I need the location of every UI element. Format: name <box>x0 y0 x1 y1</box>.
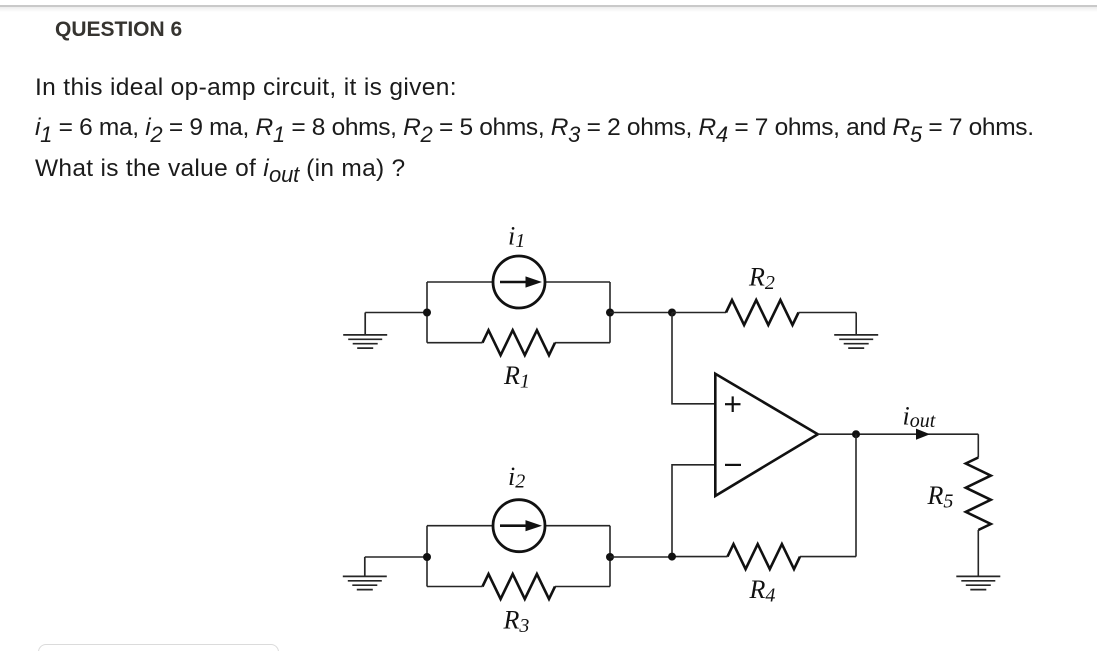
wire i2 loop left vertical <box>426 526 428 587</box>
svg-text:i1: i1 <box>508 222 525 253</box>
wire i1 block to node A <box>610 312 672 314</box>
node right of i1 block <box>606 309 614 317</box>
node output <box>852 430 860 438</box>
wire R3 left lead <box>427 586 483 588</box>
current source I2 <box>493 500 545 552</box>
wire i1 loop left vertical <box>426 282 428 343</box>
node B (minus input net) <box>668 553 676 561</box>
wire node A to plus input <box>672 313 715 404</box>
node left of i2 block <box>423 553 431 561</box>
wire i2 block to node B <box>610 556 672 558</box>
wire i2 loop right vertical <box>609 526 611 587</box>
resistor R5 <box>966 458 991 531</box>
wire output node down to R4 <box>855 434 857 556</box>
node right of i2 block <box>606 553 614 561</box>
svg-text:R1: R1 <box>503 361 530 393</box>
op-amp U1 <box>715 374 818 496</box>
svg-text:R4: R4 <box>749 575 776 607</box>
svg-text:iout: iout <box>903 402 936 433</box>
wire R2 right lead <box>799 312 857 314</box>
wire node A to R2 <box>672 312 726 314</box>
wire ground to left node of i2 block <box>365 556 427 558</box>
ground (R5) <box>956 576 1000 589</box>
wire output corner to R5 <box>977 434 979 457</box>
wire i1 loop top right segment <box>545 281 610 283</box>
svg-text:R5: R5 <box>927 481 954 513</box>
current arrow iout <box>916 429 930 440</box>
wire i1 loop right vertical <box>609 282 611 343</box>
resistor R2 <box>726 300 799 325</box>
wire R5 to ground <box>977 530 979 576</box>
ground (R2) <box>834 335 878 348</box>
resistor R4 <box>728 544 801 569</box>
svg-text:i2: i2 <box>508 462 525 493</box>
current source I1 <box>493 256 545 308</box>
wire R2 ground stub <box>855 313 857 335</box>
resistor R3 <box>483 574 556 599</box>
wire R1 left lead <box>427 342 483 344</box>
svg-text:R3: R3 <box>503 606 530 638</box>
wire i2 loop top left segment <box>427 525 493 527</box>
resistor R1 <box>483 330 556 355</box>
node A (plus input net) <box>668 309 676 317</box>
wire i2 loop top right segment <box>545 525 610 527</box>
wire node B to minus input <box>672 465 715 557</box>
minus sign <box>725 464 741 466</box>
wire R4 right lead <box>800 556 856 558</box>
node left of i1 block <box>423 309 431 317</box>
ground (bottom left) <box>343 557 387 590</box>
ground (top left) <box>343 313 387 349</box>
svg-text:R2: R2 <box>748 263 775 295</box>
wire ground to left node of i1 block <box>365 312 427 314</box>
wire op-amp output <box>818 433 979 435</box>
wire i1 loop top left segment <box>427 281 493 283</box>
wire R3 right lead <box>555 586 610 588</box>
wire node B to R4 <box>672 556 728 558</box>
plus sign <box>725 396 741 412</box>
wire R1 right lead <box>555 342 610 344</box>
